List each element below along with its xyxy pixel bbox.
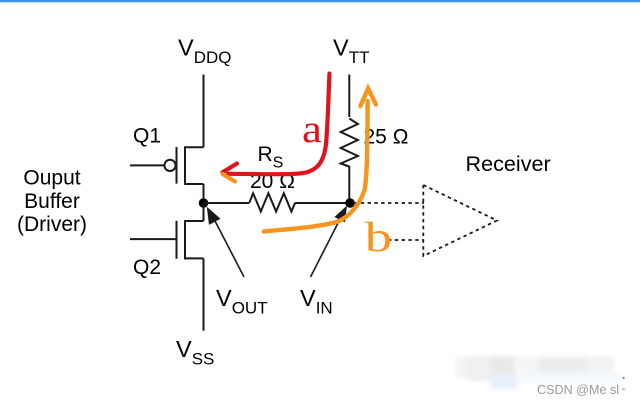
wire VTT rail: [348, 75, 350, 118]
svg-text:Ouput: Ouput: [23, 167, 80, 190]
annotation arrow b (orange curve): [264, 89, 376, 232]
wire resistor RT to input node: [348, 166, 350, 203]
transistor Q2 (NMOS): [130, 220, 204, 259]
receiver U1 (dotted buffer triangle): [423, 185, 497, 256]
wire Q1 source to output node: [203, 184, 205, 204]
arrow to VIN node: [311, 206, 348, 278]
svg-text:CSDN @Me sl: CSDN @Me sl: [537, 383, 619, 397]
svg-text:Q2: Q2: [133, 256, 161, 279]
label: Ouput Buffer (Driver): [17, 167, 87, 237]
svg-text:Receiver: Receiver: [466, 151, 551, 176]
transistor Q1 (PMOS): [130, 146, 204, 185]
top blue bar: [0, 0, 640, 3]
svg-text:VTT: VTT: [333, 35, 369, 68]
svg-text:Buffer: Buffer: [24, 190, 80, 213]
svg-text:b: b: [365, 214, 392, 261]
net VDDQ label: [178, 35, 231, 68]
wire output node to resistor RS: [204, 202, 250, 204]
svg-text:25 Ω: 25 Ω: [364, 126, 409, 149]
svg-text:VOUT: VOUT: [216, 285, 268, 318]
wire resistor RS to input node: [295, 202, 350, 204]
resistor RS: [249, 193, 295, 211]
wire VDDQ rail: [203, 75, 205, 148]
svg-text:VIN: VIN: [300, 285, 333, 318]
node VIN junction: [345, 198, 355, 208]
dotted wire stub b to receiver: [388, 239, 424, 241]
svg-text:(Driver): (Driver): [17, 213, 87, 236]
node VOUT junction: [199, 198, 209, 208]
wire Q2 source to VSS: [203, 258, 205, 330]
arrow to VOUT node: [207, 207, 244, 277]
svg-text:VDDQ: VDDQ: [178, 35, 231, 68]
watermark blur patches: [455, 356, 620, 389]
annotation arrowhead lower barb (orange): [223, 174, 236, 182]
dotted wire node to receiver input: [354, 202, 424, 204]
svg-text:a: a: [302, 107, 322, 151]
svg-text:VSS: VSS: [176, 336, 214, 369]
svg-text:RS: RS: [258, 143, 284, 172]
svg-text:Q1: Q1: [133, 125, 161, 148]
annotation arrow a (red curve): [223, 74, 330, 175]
wire node to Q2 drain: [203, 203, 205, 221]
watermark text CSDN: [537, 377, 625, 397]
resistor RT 25 ohm: [341, 119, 358, 167]
